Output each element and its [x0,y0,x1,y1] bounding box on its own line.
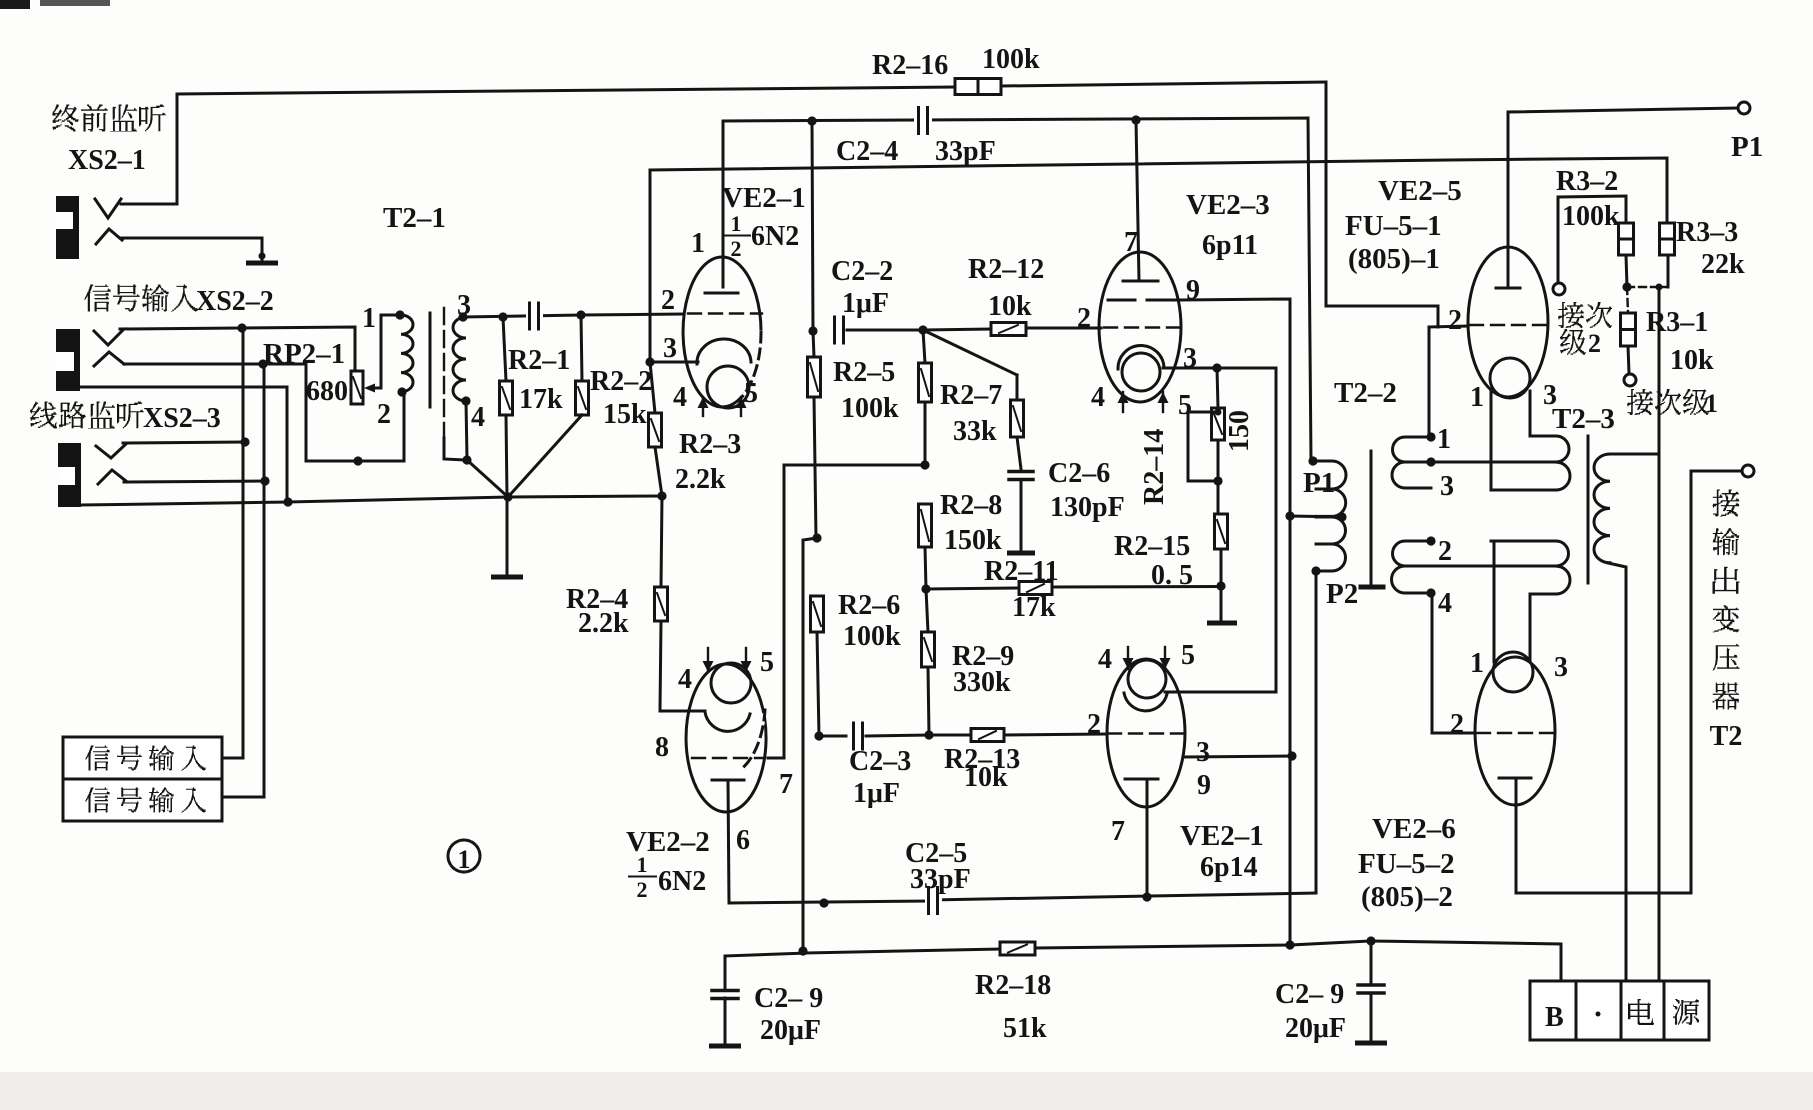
svg-text:10k: 10k [1670,345,1714,376]
svg-text:4: 4 [1098,644,1112,675]
resistor R3-3 22k [1660,223,1675,255]
svg-text:5: 5 [744,378,758,409]
svg-text:R2–15: R2–15 [1114,531,1190,562]
svg-text:P2: P2 [1326,578,1358,610]
jack XS2-1 ring contact [96,229,122,244]
resistor R2-9 330k [926,589,928,632]
svg-text:0. 5: 0. 5 [1151,560,1193,591]
svg-text:150k: 150k [944,525,1002,556]
label 源 cell [1673,999,1699,1025]
resistor R2-2 15k [581,315,582,381]
resistor R2-7 33k upper [923,330,925,363]
VE2-2 cathode [705,712,750,731]
wire bottom supply line [725,953,806,956]
tube VE2-6 envelope [1475,657,1555,805]
svg-text:22k: 22k [1701,249,1745,280]
wire VE2-1 plate top line [723,118,1311,461]
VE2-4 cathode [1124,693,1167,711]
ground T2-2 core [1361,585,1383,590]
svg-text:T2–1: T2–1 [383,202,446,234]
wire VE2-5 plate to P1 terminal [1508,108,1738,288]
wire W3 bottom [1491,489,1556,492]
wire center junction to ground [506,497,509,575]
svg-text:R2–8: R2–8 [940,490,1002,521]
svg-text:1: 1 [1437,424,1451,455]
capacitor C2-9 right [1370,941,1373,984]
svg-text:20μF: 20μF [760,1015,821,1046]
potentiometer RP2-1 [351,371,363,404]
tube VE2-3 envelope [1099,252,1181,402]
wire XS2-3 tip [123,442,245,443]
label 接次级1 [1627,389,1653,415]
wire monitor ring line down to input box 2 [263,364,266,797]
wire R2-2 bottom diagonal to center junction [508,415,582,497]
svg-text:4: 4 [673,382,687,413]
jack XS2-1 body [56,196,79,259]
wire XS2-2 sleeve [80,387,287,502]
wire R2-11 line [926,588,1019,589]
wire VE2-5 filament right lead [1530,391,1556,436]
svg-text:6p11: 6p11 [1202,230,1258,261]
svg-text:R3–2: R3–2 [1556,166,1618,197]
terminal P1 [1738,102,1750,114]
VE2-5 filament circle [1490,358,1530,398]
wire VE2-1 cathode pin3 [650,361,698,364]
capacitor C2-9 left [724,956,727,988]
T2-2 secondary W1 coil [1392,437,1431,488]
wire feedback line VE2-1 cathode to R3-3 [649,170,652,362]
T2-1 secondary coil [453,317,466,401]
svg-text:4: 4 [1438,588,1452,619]
wire divider to VE2-2 grid [768,465,784,758]
svg-text:10k: 10k [988,291,1032,322]
label 信号输入 box2 [85,788,110,813]
junction RP2-1 bottom [353,456,362,465]
resistor R2-16 [955,79,1001,95]
svg-text:3: 3 [1440,471,1454,502]
svg-text:R2–1: R2–1 [508,345,570,376]
wire VE2-4 cathode line [1165,368,1276,692]
VE2-4 plate [1125,778,1158,781]
wire monitor tip line down to input box 1 [242,328,245,758]
svg-text:10k: 10k [964,762,1008,793]
wire XS2-3 ring [124,481,265,482]
resistor R2-3 2.2k [650,362,655,413]
svg-text:4: 4 [1091,382,1105,413]
tube VE2-5 envelope [1468,247,1548,397]
svg-text:1: 1 [362,303,376,334]
tube VE2-1 envelope [683,257,761,407]
svg-text:5: 5 [1181,640,1195,671]
svg-text:1: 1 [1705,389,1718,418]
svg-text:2: 2 [1588,329,1601,358]
arrowhead wiper [364,384,375,393]
ground C2-6 [1010,551,1033,556]
junction C2-2 branch [807,116,816,125]
terminal 接次级2 [1553,283,1565,295]
label 终前监听 [52,105,78,132]
wire branch to lower bus [803,538,817,952]
wire box2 to monitor line [222,796,264,799]
capacitor C2-5 33pF [925,887,942,915]
svg-text:8: 8 [655,732,669,763]
wire R3-2 bottom junction [1626,255,1627,287]
wire R2-14 parallel loop [1188,412,1218,481]
VE2-1 grid dashed [688,312,762,314]
svg-text:VE2–1: VE2–1 [1180,820,1264,852]
terminal output lower [1742,465,1754,477]
svg-text:T2: T2 [1710,721,1743,752]
wire P1P2 center tap [1290,516,1344,517]
svg-text:17k: 17k [1012,592,1056,623]
wire W3 middle tap line [1431,461,1556,464]
svg-text:VE2–5: VE2–5 [1378,175,1462,207]
T2-2 primary P1 coil [1316,461,1346,516]
svg-text:1: 1 [1470,648,1484,679]
resistor R2-7b 33k right [1016,375,1019,400]
svg-text:C2–4: C2–4 [836,136,898,167]
wire grid divider line y=465 [784,464,925,467]
wire R2-16 top line [177,87,955,94]
svg-text:R2–7: R2–7 [940,380,1002,411]
wire diagonal to R2-7b [923,330,1017,375]
svg-text:1: 1 [731,211,742,236]
svg-text:100k: 100k [982,44,1040,75]
jack XS2-3 ring contact [98,470,126,484]
svg-text:2: 2 [637,877,648,902]
tube VE2-2 envelope [686,664,766,812]
wire XS2-1 ring to ground [122,238,262,260]
svg-text:5: 5 [760,647,774,678]
resistor R2-4 2.2k [661,496,662,587]
wire R2-16 right end down to VE2-5 grid line [1326,82,1438,327]
svg-text:6: 6 [736,825,750,856]
svg-text:1μF: 1μF [842,288,889,319]
resistor R3-2 [1619,223,1634,255]
wire VE2-6 filament left lead [1493,541,1496,662]
wire VE2-3 pin3 line [1163,367,1276,370]
wire ground bus [288,497,508,502]
svg-text:R2–12: R2–12 [968,254,1044,285]
svg-text:C2–3: C2–3 [849,746,911,777]
wire RP2-1 wiper to T2-1 primary top [374,315,400,388]
svg-text:2: 2 [1448,305,1462,336]
wire secondary bottom lead [466,401,467,459]
svg-text:7: 7 [1124,227,1138,258]
VE2-2 plate [712,779,744,782]
svg-text:R2–14: R2–14 [1139,429,1170,505]
terminal block 电源 [1530,981,1576,1040]
svg-text:100k: 100k [843,621,901,652]
svg-text:XS2–3: XS2–3 [143,403,221,434]
label dot cell [1596,1012,1601,1017]
wire W1-1 up to VE2-5 grid [1428,327,1431,437]
svg-text:R2–6: R2–6 [838,590,900,621]
filament winding W4 [1540,541,1570,594]
VE2-1 cathode [697,339,751,364]
T2-3 coil [1594,454,1610,563]
svg-text:R3–3: R3–3 [1676,217,1738,248]
label 线路监听XS2-3 [30,402,57,429]
svg-text:VE2–6: VE2–6 [1372,813,1456,845]
input box 2 [63,779,222,821]
resistor R2-12 10k [923,329,991,330]
wire XS2-1 tip to R2-16 line [121,94,177,204]
wire terminal2 to R3-2 [1558,196,1626,283]
VE2-4 heater pins 4 5 [1127,647,1129,669]
wire C2-4 node down to C2-2 [812,121,813,331]
svg-text:100k: 100k [841,393,899,424]
svg-text:15k: 15k [603,399,647,430]
svg-text:17k: 17k [519,384,563,415]
label 接输出变压器T2 vertical [1713,490,1740,517]
wire XS2-2 tip to RP2-1 top [120,327,355,371]
junction ring-monitor [258,359,267,368]
wire VE2-6 plate to output terminal [1516,471,1742,893]
VE2-3 grid dashed [1104,326,1180,328]
svg-text:RP2–1: RP2–1 [263,338,345,370]
capacitor C2-3 1uF [819,735,846,738]
VE2-6 filament circle [1493,652,1533,692]
label 信号输入 box1 [85,746,110,771]
ground R2-15 [1210,621,1235,626]
VE2-6 grid dashed [1477,732,1553,734]
svg-text:6N2: 6N2 [751,221,799,252]
resistor R2-6 100k [811,596,824,632]
T2-2 primary P2 coil [1316,517,1346,571]
svg-text:R2–3: R2–3 [679,429,741,460]
jack XS2-3 tip contact [96,444,126,458]
svg-text:C2–2: C2–2 [831,256,893,287]
wire secondary-4 diagonal to center junction [467,460,508,497]
svg-text:1: 1 [691,228,705,259]
VE2-5 grid dashed [1470,324,1546,326]
label 信号输入XS2-2 [84,285,110,312]
svg-text:2.2k: 2.2k [578,608,629,639]
svg-text:3: 3 [663,333,677,364]
svg-text:6N2: 6N2 [658,866,706,897]
resistor R3-1 10k [1627,287,1628,313]
svg-text:7: 7 [1111,816,1125,847]
svg-text:R2–11: R2–11 [984,556,1059,587]
svg-text:FU–5–2: FU–5–2 [1358,848,1455,880]
wire VE2-2 plate pin6 down [728,780,729,903]
svg-text:3: 3 [1183,343,1197,374]
input box 1 [63,737,222,779]
svg-text:33pF: 33pF [910,864,971,895]
wire box1 to monitor line [222,757,243,760]
svg-text:XS2–2: XS2–2 [196,286,274,317]
resistor R2-14 150 [1217,368,1218,408]
svg-text:3: 3 [1554,652,1568,683]
wire VE2-4 plate down [1146,779,1149,897]
svg-text:5: 5 [1178,390,1192,421]
label 电 cell [1628,999,1654,1025]
svg-text:R2–16: R2–16 [872,50,948,81]
svg-text:2: 2 [1438,536,1452,567]
svg-text:B: B [1545,1002,1564,1033]
svg-text:1: 1 [637,852,648,877]
tube VE2-4 envelope [1107,659,1185,807]
svg-text:330k: 330k [953,667,1011,698]
wire T2-1 pin3 line to VE2-1 grid [463,315,581,317]
resistor R2-5 100k [813,331,814,357]
svg-text:4: 4 [471,402,485,433]
junction VE2-3 plate branch [1131,115,1140,124]
VE2-5 plate [1496,287,1520,290]
wire R3 bottom connector [1627,286,1668,288]
VE2-2 grid dashed [692,757,764,759]
svg-text:C2– 9: C2– 9 [1275,979,1344,1010]
wire VE2-6 grid line [1432,732,1475,735]
svg-text:(805)–1: (805)–1 [1348,243,1440,275]
jack XS2-3 body [58,443,81,507]
T2-3 core [1587,436,1590,583]
svg-text:R2–2: R2–2 [590,366,652,397]
wire VE2-5 filament left lead [1490,389,1493,490]
wire T2-3 bottom lead [1608,563,1626,983]
wire VE2-3 screen pin9 to P1P2 center [1181,299,1290,945]
svg-text:2: 2 [1077,303,1091,334]
wire T2-3 R3 junction vertical [1658,287,1661,983]
svg-text:T2–2: T2–2 [1334,377,1397,409]
svg-text:2: 2 [1087,709,1101,740]
VE2-3 heater circle [1122,353,1160,391]
VE2-2 heater pins 4 5 [707,648,709,672]
junction tip-monitor [237,323,246,332]
junction ground bus center [503,492,512,501]
wire T2-3 top lead [1610,453,1659,456]
VE2-4 heater circle [1128,660,1166,698]
resistor R2-11 17k [1019,582,1052,595]
VE2-1 heater pins 4 5 [702,397,704,416]
capacitor C2-4 [914,108,932,134]
svg-text:33k: 33k [953,416,997,447]
junction R2-2 top [576,310,585,319]
svg-text:51k: 51k [1003,1013,1047,1044]
resistor R2-1 17k [503,317,506,381]
T2-1 core [429,313,432,407]
VE2-3 heater pins 4 5 [1122,392,1124,412]
jack XS2-2 ring contact [94,352,124,366]
wire VE2-6 filament right lead [1530,594,1556,660]
svg-text:R2–5: R2–5 [833,357,895,388]
filament winding W3 [1540,436,1570,490]
wire W2-4 down to VE2-6 grid [1431,593,1434,733]
wire VE2-4 pin3 line [1184,756,1292,757]
svg-text:4: 4 [678,664,692,695]
svg-text:P1: P1 [1303,467,1335,499]
svg-text:1μF: 1μF [853,778,900,809]
wire C2-2 to R2-12 [847,329,923,332]
wire VE2-2 plate line to P2 [729,901,930,903]
svg-text:2: 2 [1450,709,1464,740]
svg-text:130pF: 130pF [1050,492,1125,523]
svg-text:150: 150 [1224,410,1255,452]
jack XS2-1 tip contact [95,199,121,218]
wire XS2-2 ring line [124,364,404,461]
VE2-3 screen [1108,299,1135,302]
svg-text:6p14: 6p14 [1200,852,1258,883]
svg-text:2: 2 [731,236,742,261]
ground T2-1 center [494,575,521,580]
svg-text:R2–18: R2–18 [975,970,1051,1001]
svg-text:(805)–2: (805)–2 [1361,881,1453,913]
svg-text:1: 1 [1470,382,1484,413]
T2-1 primary coil [401,315,413,392]
VE2-4 grid dashed [1108,732,1184,734]
svg-text:20μF: 20μF [1285,1013,1346,1044]
svg-text:XS2–1: XS2–1 [68,145,146,176]
capacitor C2-1 input coupling [526,303,543,331]
VE2-1 heater circle [707,366,749,408]
capacitor C2-6 130pF [1009,470,1033,474]
svg-text:100k: 100k [1562,201,1620,232]
resistor R2-8 150k [919,504,932,547]
terminal 接次级1 [1624,374,1636,386]
label 接次级2 [1558,302,1584,328]
ground XS2-1 [249,261,276,266]
svg-text:C2– 9: C2– 9 [754,983,823,1014]
wire W4 top [1491,540,1556,543]
jack XS2-2 body [56,329,80,391]
jack XS2-2 tip contact [94,330,123,345]
svg-text:VE2–3: VE2–3 [1186,189,1270,221]
figure number circle 1 [448,840,480,872]
svg-text:R3–1: R3–1 [1646,307,1708,338]
wire VE2-5 grid line [1429,326,1468,327]
VE2-3 plate [1123,280,1158,283]
svg-text:P1: P1 [1731,131,1763,163]
T2-2 secondary W2 coil [1392,541,1432,593]
svg-text:33pF: 33pF [935,136,996,167]
svg-text:3: 3 [1196,737,1210,768]
VE2-3 cathode [1118,346,1164,369]
svg-text:T2–3: T2–3 [1552,403,1615,435]
capacitor C2-2 [830,317,847,345]
wire VE2-3 plate from top line [1136,120,1139,281]
svg-text:680: 680 [306,376,348,407]
wire W4 middle tap line [1431,565,1556,568]
VE2-6 plate [1499,777,1531,780]
wire XS2-3 sleeve to ground bus [81,502,288,505]
T2-2 core [1370,451,1373,585]
VE2-1 plate [705,292,738,295]
resistor R2-18 51k [1000,942,1035,955]
svg-text:9: 9 [1186,275,1200,306]
T2-1 shield dashed [443,308,445,438]
svg-text:7: 7 [779,769,793,800]
svg-text:2: 2 [377,399,391,430]
svg-text:2: 2 [661,285,675,316]
svg-text:2.2k: 2.2k [675,464,726,495]
svg-text:FU–5–1: FU–5–1 [1345,210,1442,242]
svg-text:1: 1 [458,845,471,874]
svg-text:C2–6: C2–6 [1048,458,1110,489]
resistor R2-13 10k [929,734,971,737]
resistor R2-15 0.5 [1215,514,1228,549]
svg-text:VE2–1: VE2–1 [722,182,806,214]
VE2-2 heater circle [711,663,751,703]
svg-text:9: 9 [1197,770,1211,801]
